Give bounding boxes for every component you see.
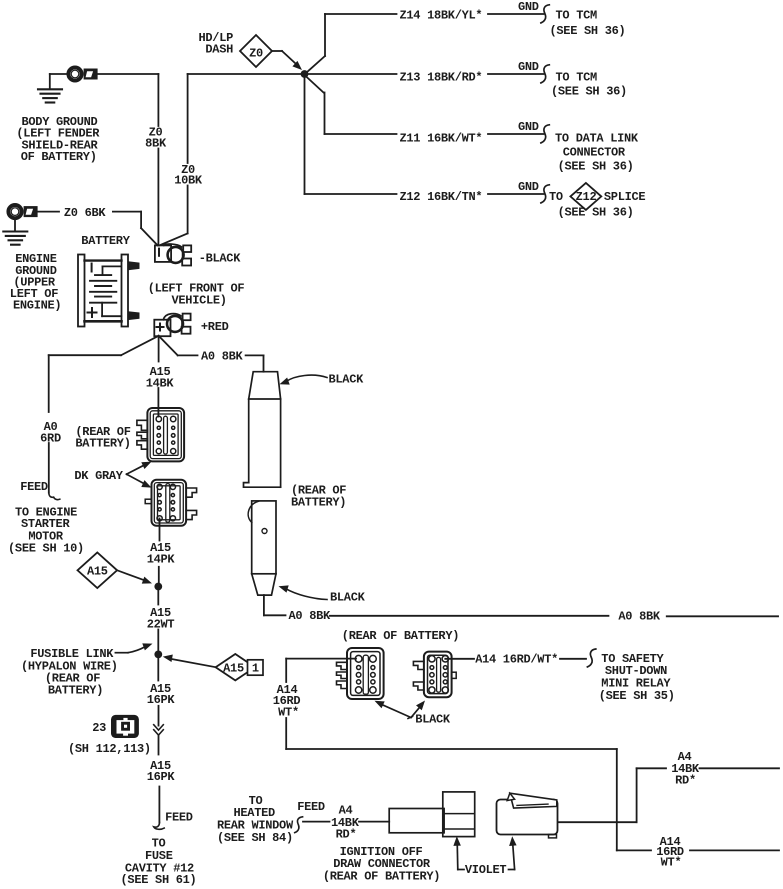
- svg-text:VIOLET: VIOLET: [465, 863, 507, 877]
- svg-text:CONNECTOR: CONNECTOR: [563, 146, 626, 160]
- svg-text:(SEE SH 84): (SEE SH 84): [217, 831, 293, 845]
- svg-text:A15: A15: [87, 565, 108, 579]
- svg-text:A0 8BK: A0 8BK: [289, 609, 332, 623]
- svg-text:BATTERY): BATTERY): [48, 683, 103, 697]
- svg-text:RD*: RD*: [336, 827, 357, 841]
- svg-text:A15: A15: [223, 661, 244, 675]
- svg-text:(REAR OF BATTERY): (REAR OF BATTERY): [323, 870, 440, 884]
- svg-text:8BK: 8BK: [145, 136, 167, 150]
- svg-text:BLACK: BLACK: [330, 591, 366, 605]
- svg-text:GND: GND: [518, 0, 539, 14]
- svg-text:16PK: 16PK: [147, 693, 176, 707]
- svg-text:BATTERY: BATTERY: [81, 234, 130, 248]
- svg-text:TO: TO: [549, 190, 563, 204]
- svg-text:FEED: FEED: [20, 480, 48, 494]
- svg-text:FEED: FEED: [165, 811, 193, 825]
- svg-text:BATTERY): BATTERY): [291, 495, 346, 509]
- svg-text:Z14 18BK/YL*: Z14 18BK/YL*: [400, 8, 483, 22]
- svg-text:22WT: 22WT: [147, 618, 175, 632]
- svg-text:OF BATTERY): OF BATTERY): [21, 150, 97, 164]
- svg-text:14BK: 14BK: [146, 377, 175, 391]
- svg-text:(SEE SH 10): (SEE SH 10): [8, 542, 84, 556]
- svg-text:DK GRAY: DK GRAY: [74, 469, 123, 483]
- svg-text:(SEE SH 61): (SEE SH 61): [121, 873, 197, 887]
- svg-text:(SEE SH 36): (SEE SH 36): [558, 206, 634, 220]
- svg-text:(SEE SH 36): (SEE SH 36): [551, 85, 627, 99]
- svg-text:(SEE SH 36): (SEE SH 36): [558, 160, 634, 174]
- svg-text:Z0: Z0: [249, 46, 263, 60]
- svg-text:TO DATA LINK: TO DATA LINK: [555, 132, 639, 146]
- svg-text:A14 16RD/WT*: A14 16RD/WT*: [475, 652, 558, 666]
- svg-text:WT*: WT*: [661, 856, 682, 870]
- svg-text:ENGINE): ENGINE): [13, 299, 61, 313]
- svg-text:FEED: FEED: [297, 800, 325, 814]
- svg-text:Z12: Z12: [576, 190, 597, 204]
- svg-text:TO TCM: TO TCM: [556, 8, 598, 22]
- svg-text:6RD: 6RD: [40, 431, 61, 445]
- svg-text:(SEE SH 36): (SEE SH 36): [550, 24, 626, 38]
- svg-text:(REAR OF BATTERY): (REAR OF BATTERY): [342, 629, 459, 643]
- svg-text:GND: GND: [518, 180, 539, 194]
- svg-text:+RED: +RED: [201, 320, 229, 334]
- svg-text:10BK: 10BK: [174, 174, 203, 188]
- svg-text:Z12 16BK/TN*: Z12 16BK/TN*: [400, 190, 483, 204]
- svg-text:WT*: WT*: [278, 705, 299, 719]
- svg-text:DASH: DASH: [205, 43, 233, 57]
- svg-text:BLACK: BLACK: [415, 712, 451, 726]
- svg-text:SPLICE: SPLICE: [604, 190, 646, 204]
- svg-text:RD*: RD*: [675, 773, 696, 787]
- svg-text:GND: GND: [518, 120, 539, 134]
- svg-text:A0 8BK: A0 8BK: [618, 609, 661, 623]
- svg-text:TO TCM: TO TCM: [556, 71, 598, 85]
- svg-text:Z13 18BK/RD*: Z13 18BK/RD*: [400, 71, 483, 85]
- svg-text:GND: GND: [518, 60, 539, 74]
- svg-text:16PK: 16PK: [147, 770, 176, 784]
- svg-text:(SEE SH 35): (SEE SH 35): [599, 689, 675, 703]
- svg-text:Z0 6BK: Z0 6BK: [64, 206, 107, 220]
- svg-text:23: 23: [92, 721, 106, 735]
- svg-text:-BLACK: -BLACK: [199, 252, 242, 266]
- svg-text:(SH 112,113): (SH 112,113): [68, 742, 151, 756]
- svg-text:BATTERY): BATTERY): [75, 436, 130, 450]
- svg-text:1: 1: [252, 662, 259, 676]
- svg-text:A0 8BK: A0 8BK: [201, 349, 244, 363]
- svg-text:BLACK: BLACK: [329, 372, 365, 386]
- svg-text:VEHICLE): VEHICLE): [172, 294, 227, 308]
- svg-text:14PK: 14PK: [147, 553, 176, 567]
- svg-text:Z11 16BK/WT*: Z11 16BK/WT*: [400, 132, 483, 146]
